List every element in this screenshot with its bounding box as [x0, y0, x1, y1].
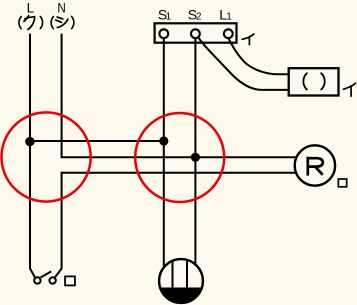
red highlight circle right [135, 113, 224, 202]
svg-text:N: N [57, 1, 65, 16]
lamp receptacle base fill [160, 288, 202, 303]
lamp R circle [295, 145, 335, 185]
wire L1 curve to box イ [228, 38, 288, 74]
label イ beside terminal box [242, 34, 254, 45]
label ク glyph [24, 16, 35, 30]
label ロ beside lamp R [338, 179, 346, 187]
wire horizontal L-to-S1 [30, 140, 164, 142]
terminal S2 [191, 29, 200, 38]
lamp receptacle inner lead left [172, 261, 174, 288]
label (シ) paren right [72, 17, 74, 29]
terminal L1 [224, 29, 233, 38]
box ( ) fixture [289, 68, 339, 95]
svg-text:L: L [27, 1, 35, 16]
switch contact right [49, 277, 55, 283]
label ( ) inside box [303, 73, 307, 89]
label (ク) paren right [40, 17, 42, 29]
junction node on L wire [25, 137, 34, 146]
svg-text:1: 1 [226, 11, 232, 22]
red highlight circle left [2, 112, 91, 201]
switch contact left [34, 277, 40, 283]
wire S2 vertical to receptacle [194, 38, 196, 265]
wire S1 vertical to receptacle [163, 38, 165, 268]
wire S2 curve to box イ [198, 37, 289, 90]
lamp receptacle circle [159, 259, 203, 303]
label (ク) paren left [19, 17, 21, 29]
junction node on S1 wire [159, 136, 168, 145]
label シ glyph [56, 17, 68, 27]
svg-text:1: 1 [166, 11, 172, 22]
switch lever [41, 271, 52, 277]
terminal S1 [159, 29, 168, 38]
label (シ) paren left [51, 17, 53, 29]
junction node on S2 wire [191, 153, 200, 162]
wire switch up + horizontal to lamp R [55, 173, 296, 278]
terminal box [155, 23, 237, 42]
label R [307, 157, 323, 176]
lamp receptacle inner lead right [186, 260, 188, 288]
svg-text:2: 2 [196, 11, 202, 22]
wire N vertical + horizontal to lamp R [62, 34, 297, 158]
label イ beside ( ) box [343, 83, 355, 96]
wire L vertical down to switch [30, 34, 35, 278]
label ロ beside switch [65, 276, 75, 285]
